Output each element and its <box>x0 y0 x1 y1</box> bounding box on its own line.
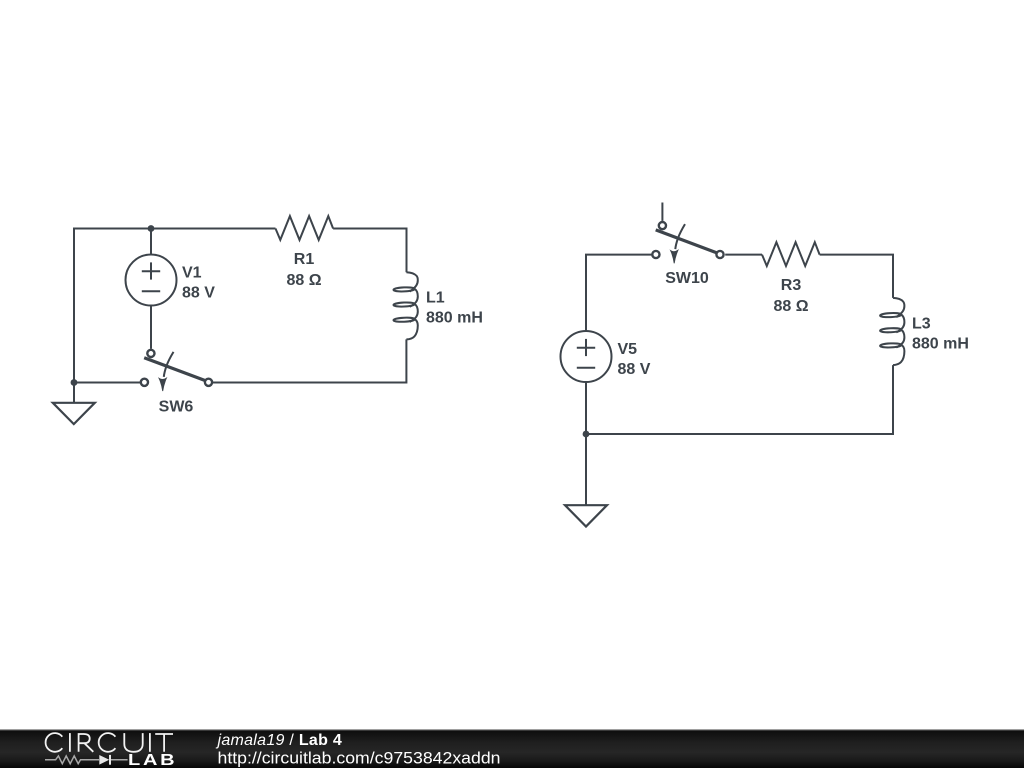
node: bottom rail / ground junction <box>71 379 78 386</box>
logo diode <box>99 755 110 765</box>
ground (left circuit) <box>53 403 95 424</box>
inductor L1 <box>393 272 417 339</box>
wire: SW10 top stub <box>661 203 663 221</box>
wire: V5 bottom stub <box>585 382 587 434</box>
logo resistor-diode glyph <box>45 756 128 764</box>
svg-text:V1: V1 <box>182 265 202 282</box>
resistor R3 <box>762 242 820 266</box>
footer bar <box>0 729 1024 768</box>
svg-text:R3: R3 <box>781 277 802 294</box>
inductor L3 <box>880 298 904 365</box>
wire: bottom rail left of SW6 <box>74 382 140 384</box>
wire: top rail right segment <box>333 229 406 273</box>
svg-text:88 Ω: 88 Ω <box>286 272 321 289</box>
svg-text:V5: V5 <box>618 341 638 358</box>
svg-text:SW10: SW10 <box>665 270 709 287</box>
resistor R1 <box>276 216 334 240</box>
wire: right rail lower segment <box>213 339 407 382</box>
switch SW6 <box>141 350 212 391</box>
ground (right circuit) <box>565 505 607 526</box>
wire: right circuit top-left segment <box>586 255 652 331</box>
svg-text:88 V: 88 V <box>618 361 651 378</box>
wire: left rail <box>73 229 75 383</box>
svg-text:jamala19 / Lab 4: jamala19 / Lab 4 <box>216 732 343 749</box>
wire: V1 top stub <box>150 229 152 255</box>
wire: ground stub right <box>585 434 587 505</box>
voltage source V5 <box>561 331 612 382</box>
wire: right rail bottom and bottom rail <box>586 365 893 434</box>
svg-text:LAB: LAB <box>128 751 177 768</box>
switch SW10 <box>652 222 723 263</box>
node: right circuit ground junction <box>583 431 590 438</box>
svg-text:88 V: 88 V <box>182 285 215 302</box>
svg-text:880 mH: 880 mH <box>912 336 969 353</box>
node: top rail / V1 junction <box>148 225 155 232</box>
svg-text:R1: R1 <box>294 251 315 268</box>
wire: SW10 to R3 <box>725 254 762 256</box>
svg-text:http://circuitlab.com/c9753842: http://circuitlab.com/c9753842xaddn <box>218 749 501 768</box>
svg-text:880 mH: 880 mH <box>426 310 483 327</box>
svg-text:L1: L1 <box>426 290 445 307</box>
wire: V1 bottom stub to SW6 <box>150 306 152 349</box>
voltage source V1 <box>126 255 177 306</box>
logo CIRCUIT wordmark <box>46 733 173 752</box>
svg-text:L3: L3 <box>912 316 931 333</box>
wire: R3 to right rail top <box>820 255 893 298</box>
svg-text:SW6: SW6 <box>159 399 194 416</box>
wire: ground stub left <box>73 383 75 403</box>
wire: left circuit top rail left segment <box>74 229 276 230</box>
svg-text:88 Ω: 88 Ω <box>773 298 808 315</box>
